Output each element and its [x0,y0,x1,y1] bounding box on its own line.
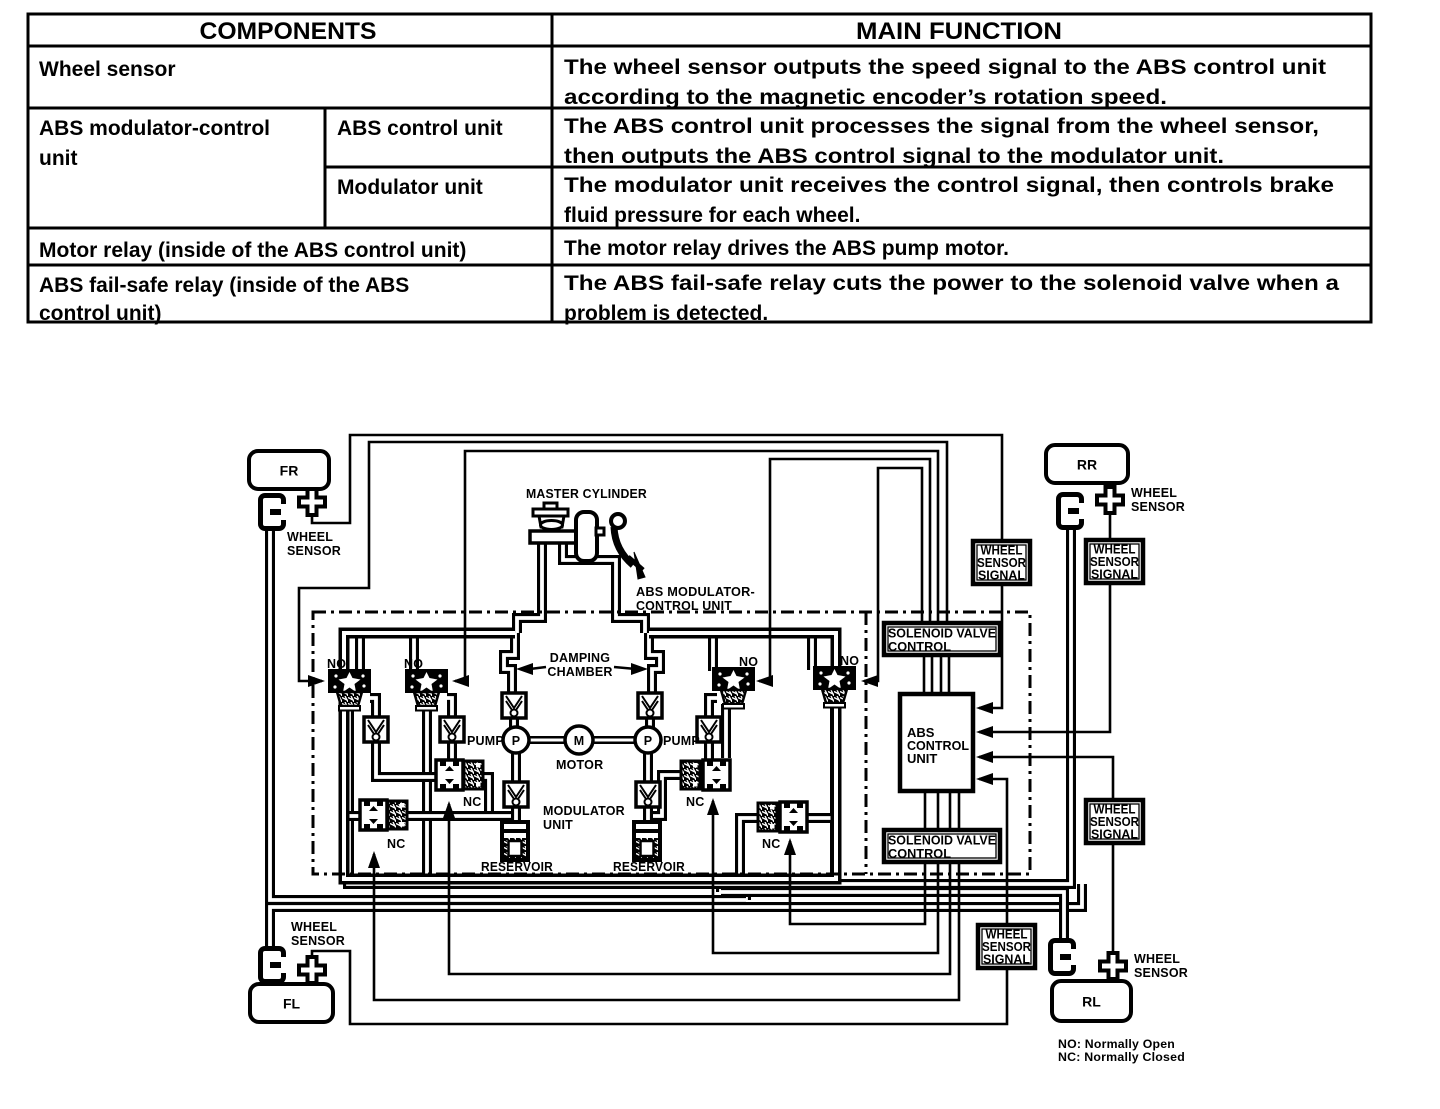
solenoid valve control box top [884,623,1000,655]
label wheel sensor FL [291,920,345,948]
label wheel sensor RR [1131,486,1185,514]
svg-text:P: P [512,734,521,748]
svg-text:problem is detected.: problem is detected. [564,302,768,325]
wire NO3 outlet pipe [721,704,731,758]
wire pump-motor shaft left [528,736,566,744]
wire control bus 4 [948,655,951,694]
svg-text:RESERVOIR: RESERVOIR [613,860,685,874]
solenoid valve NC1 (normally closed) [436,760,483,809]
svg-text:The wheel sensor outputs the s: The wheel sensor outputs the speed signa… [564,56,1326,79]
wire control bus 8 [958,791,961,831]
wire control bus 6 [937,791,940,831]
control section dash-dot divider [865,612,868,874]
wire RL wheel sensor signal [976,751,1113,953]
svg-text:MODULATOR: MODULATOR [543,804,625,818]
wire solenoid control line NC4 [784,838,925,924]
svg-text:SIGNAL: SIGNAL [978,568,1025,583]
svg-text:NO: NO [840,654,859,668]
svg-text:according to the magnetic enco: according to the magnetic encoder’s rota… [564,86,1167,109]
solenoid valve control box bottom [884,830,1000,862]
wire control bus 2 [931,655,934,694]
wire control bus 7 [949,791,952,831]
svg-text:NO: NO [739,655,758,669]
wire FR wheel sensor signal [312,435,1002,714]
reservoir left [502,822,528,860]
solenoid valve NO4 (normally open) [814,654,859,708]
pump P right [635,727,661,753]
svg-text:NC: NC [387,837,405,851]
wire NO1 outlet pipe [344,706,354,879]
ABS control unit box [900,694,973,791]
check valve right pump inlet valve [638,693,662,718]
svg-text:The motor relay drives the ABS: The motor relay drives the ABS pump moto… [564,237,1009,260]
solenoid valve NC4 (normally closed) [758,802,807,851]
wire NO4 feed pipe [807,633,817,670]
wheel sensor signal box RR [1086,540,1143,583]
wire RL brake pipe [721,892,1064,940]
wire NO2 outlet pipe [422,706,432,879]
svg-text:unit: unit [39,147,77,170]
wire right pump discharge pipe [645,715,655,730]
wire solenoid control line NC2 [368,851,959,1000]
check valve CV3 [697,717,721,742]
svg-text:Modulator unit: Modulator unit [337,176,483,199]
svg-text:SIGNAL: SIGNAL [983,952,1030,967]
wire right pump-reservoir pipe [643,807,653,826]
svg-text:WHEEL: WHEEL [291,920,337,934]
wire FR brake pipe [270,530,746,900]
svg-text:WHEEL: WHEEL [1134,952,1180,966]
wire control bus 5 [924,791,927,831]
wire solenoid control line NC1 [443,801,950,974]
wheel box FL [250,984,333,1022]
svg-text:FL: FL [283,996,301,1012]
wire solenoid control line NO4 [861,468,922,687]
svg-text:ABS fail-safe relay (inside of: ABS fail-safe relay (inside of the ABS [39,274,409,297]
wire FL wheel sensor signal [312,773,1007,1024]
wheel box FR [249,451,329,489]
wire CV2 outlet pipe [447,741,457,760]
wire control bus 1 [923,655,926,694]
solenoid valve NC3 (normally closed) [681,760,730,809]
svg-text:ABS control unit: ABS control unit [337,117,503,140]
svg-text:CONTROL: CONTROL [888,846,951,861]
wire right pump suction pipe [643,752,653,783]
wire left pump-reservoir pipe [511,807,521,826]
wire NO4 outlet pipe [830,704,840,879]
svg-text:FR: FR [280,463,299,479]
wire RL pipe riser [716,875,726,892]
wire NC1 outlet pipe [479,777,516,816]
wire RR wheel sensor signal [976,513,1110,738]
svg-text:NC: Normally Closed: NC: Normally Closed [1058,1052,1185,1064]
label damping chamber [516,651,648,679]
svg-text:M: M [574,734,585,748]
svg-text:WHEEL: WHEEL [1131,486,1177,500]
reservoir right [634,822,660,860]
wire NO2 feed pipe [409,633,419,672]
label modulator unit [543,804,625,832]
master cylinder [530,503,604,561]
wire solenoid control line NC3 [707,798,938,953]
wire right damping chamber pipe [649,633,660,694]
svg-text:NC: NC [686,795,704,809]
svg-text:ABS MODULATOR-: ABS MODULATOR- [636,585,755,599]
wire master cylinder primary pipe [517,540,542,633]
wire CV3 outlet pipe [683,741,709,775]
wheel sensor cross FL [299,957,325,986]
svg-text:control unit): control unit) [39,302,161,325]
wheel sensor signal box RL [1086,800,1143,843]
solenoid valve NO1 (normally open) [327,657,370,711]
wire pump-motor shaft right [592,736,634,744]
svg-text:SENSOR: SENSOR [1134,966,1188,980]
wire NC4 outlet pipe [800,813,835,823]
wire CV2 link pipe [447,698,452,718]
svg-text:The ABS control unit processes: The ABS control unit processes the signa… [564,115,1319,138]
svg-text:NO: NO [404,657,423,671]
svg-text:MOTOR: MOTOR [556,758,603,772]
wire control bus 3 [940,655,943,694]
wire NC2 inlet pipe [349,811,362,821]
wheel sensor cross FR [299,489,325,515]
svg-text:NC: NC [762,837,780,851]
wire NO1 feed pipe [355,633,365,672]
wire left pump suction pipe [511,752,521,783]
svg-text:PUMP: PUMP [663,734,700,748]
label wheel sensor RL [1134,952,1188,980]
wheel box RR [1046,445,1128,483]
wire solenoid control line NO1 [299,442,947,687]
svg-text:then outputs the ABS control s: then outputs the ABS control signal to t… [564,145,1224,168]
brake pedal [611,514,645,579]
wheel box RL [1052,981,1131,1021]
svg-text:Motor relay (inside of the ABS: Motor relay (inside of the ABS control u… [39,239,466,262]
svg-text:P: P [644,734,653,748]
svg-text:PUMP: PUMP [467,734,504,748]
wheel sensor cross RL [1100,953,1126,982]
brake caliper FR [258,493,287,531]
wire FL brake pipe [270,884,1082,948]
check valve right pump suction valve [636,782,660,807]
svg-text:UNIT: UNIT [907,751,937,766]
svg-text:WHEEL: WHEEL [287,530,333,544]
svg-text:SENSOR: SENSOR [291,934,345,948]
solenoid valve NO2 (normally open) [404,657,447,711]
svg-text:COMPONENTS: COMPONENTS [200,18,377,45]
wire left pump discharge pipe [509,715,519,730]
svg-text:CONTROL UNIT: CONTROL UNIT [636,599,732,613]
svg-text:MAIN FUNCTION: MAIN FUNCTION [856,18,1062,45]
svg-text:RR: RR [1077,457,1097,473]
wire NC2 outlet pipe [403,811,516,821]
wire solenoid control line NO3 [756,459,930,687]
svg-text:Wheel sensor: Wheel sensor [39,58,176,81]
motor M [565,726,593,754]
wire RR brake pipe [348,530,1071,884]
wire master cylinder secondary pipe [563,540,645,633]
brake caliper RL [1048,938,1077,976]
wheel sensor signal box FL [978,925,1035,968]
wire CV1 outlet pipe [376,741,438,777]
solenoid valve NO3 (normally open) [713,655,758,709]
svg-text:UNIT: UNIT [543,818,573,832]
wire NO3 feed pipe [708,633,718,671]
svg-text:SENSOR: SENSOR [1131,500,1185,514]
svg-text:NO: Normally Open: NO: Normally Open [1058,1039,1175,1051]
wire FR pipe riser [741,875,751,900]
svg-text:The ABS fail-safe relay cuts t: The ABS fail-safe relay cuts the power t… [564,272,1339,295]
wheel sensor cross RR [1097,483,1123,513]
wire CV1 link pipe [370,698,376,718]
label wheel sensor FR [287,530,341,558]
legend NO/NC [1058,1039,1185,1064]
wire solenoid control line NO2 [452,451,938,687]
check valve left pump suction valve [504,782,528,807]
svg-text:MASTER CYLINDER: MASTER CYLINDER [526,487,647,501]
check valve left pump inlet valve [502,693,526,718]
svg-text:ABS modulator-control: ABS modulator-control [39,117,270,140]
pump P left [503,727,529,753]
wire left damping chamber pipe [504,633,515,694]
svg-text:RESERVOIR: RESERVOIR [481,860,553,874]
label ABS modulator-control unit [636,585,755,613]
svg-text:RL: RL [1082,994,1101,1010]
wheel sensor signal box FR [973,541,1030,584]
check valve CV2 [440,717,464,742]
svg-text:fluid pressure for each wheel.: fluid pressure for each wheel. [564,204,860,227]
components/main-function table [28,14,1371,322]
svg-text:NC: NC [463,795,481,809]
check valve CV1 [364,717,388,742]
svg-text:CHAMBER: CHAMBER [547,665,612,679]
solenoid valve NC2 (normally closed) [360,800,407,851]
ABS modulator-control unit dash-dot border [313,612,1030,874]
brake caliper RR [1056,492,1085,530]
svg-text:SIGNAL: SIGNAL [1091,827,1138,842]
wire NC3 outlet pipe [648,775,683,816]
svg-text:The modulator unit receives th: The modulator unit receives the control … [564,174,1334,197]
svg-text:CONTROL: CONTROL [888,639,951,654]
svg-text:SENSOR: SENSOR [287,544,341,558]
svg-text:NO: NO [327,657,346,671]
svg-text:DAMPING: DAMPING [550,651,610,665]
wire hydraulic manifold box [344,633,836,879]
svg-text:SIGNAL: SIGNAL [1091,567,1138,582]
wire CV3 link pipe [709,698,717,718]
wire NC4 inlet pipe [740,818,760,879]
brake caliper FL [258,946,287,984]
